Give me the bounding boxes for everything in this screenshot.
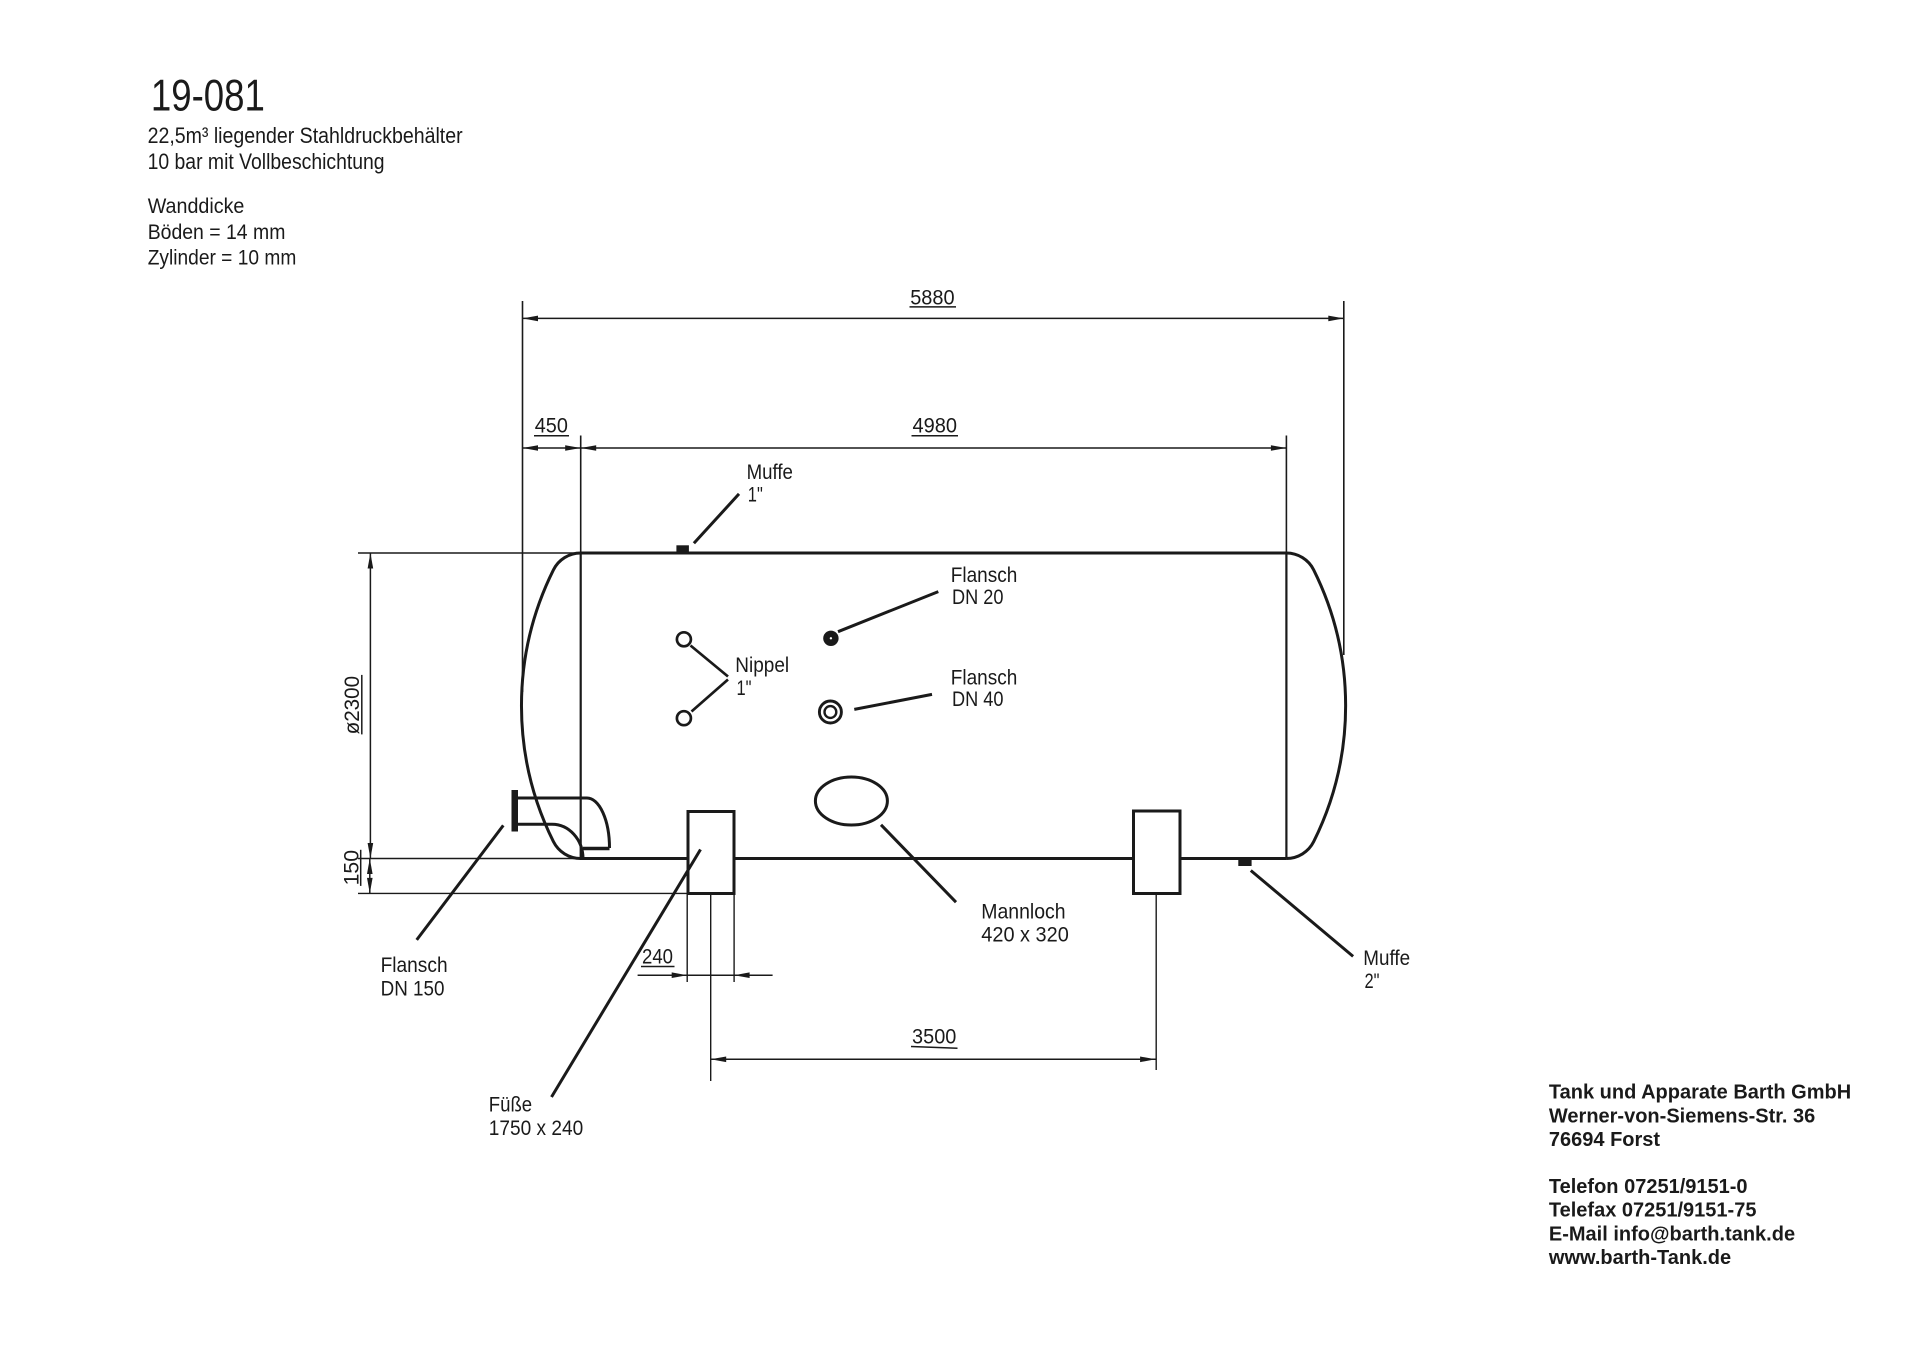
- ground line (150): [358, 892, 689, 894]
- extension line left weld (450/4980): [580, 436, 582, 554]
- leader Flansch DN150: [417, 825, 504, 940]
- right weld seam: [1285, 553, 1287, 859]
- svg-text:Flansch: Flansch: [951, 563, 1018, 587]
- svg-text:4980: 4980: [913, 414, 958, 438]
- svg-text:Muffe: Muffe: [747, 460, 793, 484]
- leader Muffe 1": [694, 494, 739, 543]
- dimension 240 line: [638, 974, 773, 976]
- centerline left foot (3500): [710, 894, 712, 1081]
- label Nippel 1": [735, 653, 789, 700]
- flange DN20 mark: [823, 631, 838, 646]
- svg-text:Wanddicke: Wanddicke: [148, 194, 245, 218]
- tank shell top line: [580, 552, 1286, 555]
- svg-text:www.barth-Tank.de: www.barth-Tank.de: [1548, 1247, 1731, 1269]
- svg-text:Werner-von-Siemens-Str. 36: Werner-von-Siemens-Str. 36: [1549, 1105, 1815, 1127]
- flange DN150 nozzle with elbow: [512, 790, 610, 859]
- svg-text:DN 40: DN 40: [952, 687, 1004, 711]
- label Mannloch 420 x 320: [981, 899, 1069, 946]
- svg-text:450: 450: [535, 414, 568, 438]
- extension line right overall (5880): [1343, 301, 1345, 655]
- svg-text:5880: 5880: [910, 286, 954, 310]
- svg-text:240: 240: [642, 945, 673, 969]
- svg-text:1": 1": [737, 676, 752, 700]
- svg-text:10 bar mit Vollbeschichtung: 10 bar mit Vollbeschichtung: [148, 149, 385, 174]
- nipple upper circle: [677, 632, 691, 646]
- svg-text:420 x 320: 420 x 320: [981, 922, 1069, 946]
- svg-text:Mannloch: Mannloch: [981, 899, 1065, 923]
- nipple lower circle: [677, 711, 691, 725]
- dimension 5880 line: [523, 317, 1344, 319]
- svg-text:Nippel: Nippel: [735, 653, 789, 677]
- socket Muffe 1" mark: [676, 545, 689, 553]
- leader Flansch DN40: [854, 694, 932, 709]
- dimension 4980 line: [581, 447, 1287, 449]
- centerline right foot (3500): [1155, 894, 1157, 1070]
- svg-text:Flansch: Flansch: [951, 666, 1018, 690]
- extension line left overall (5880): [522, 301, 524, 692]
- flange DN40 mark: [819, 701, 841, 723]
- svg-text:1750 x 240: 1750 x 240: [489, 1116, 583, 1140]
- svg-text:Muffe: Muffe: [1363, 946, 1410, 970]
- right dished head: [1286, 553, 1345, 859]
- label Füße 1750 x 240: [489, 1093, 583, 1140]
- svg-text:ø2300: ø2300: [340, 676, 364, 735]
- label Muffe 1": [747, 460, 793, 507]
- extension line right weld (4980): [1285, 436, 1287, 554]
- leader Muffe 2": [1251, 871, 1353, 957]
- manhole ellipse: [815, 777, 887, 825]
- svg-text:2": 2": [1365, 969, 1380, 993]
- extension line top tangent (ø2300): [358, 552, 580, 554]
- label Flansch DN 20: [951, 563, 1018, 609]
- label Flansch DN 40: [951, 666, 1018, 712]
- svg-text:76694 Forst: 76694 Forst: [1549, 1129, 1661, 1151]
- extension line bottom tangent (ø2300/150): [358, 858, 581, 860]
- dimension ø2300 line: [369, 553, 371, 859]
- right support foot: [1134, 811, 1181, 894]
- svg-text:DN 20: DN 20: [952, 585, 1004, 609]
- svg-text:1": 1": [748, 483, 763, 507]
- svg-text:E-Mail info@barth.tank.de: E-Mail info@barth.tank.de: [1549, 1223, 1795, 1245]
- svg-text:19-081: 19-081: [151, 71, 265, 120]
- svg-text:Füße: Füße: [489, 1093, 532, 1117]
- svg-text:Flansch: Flansch: [381, 953, 448, 977]
- company address block: [1548, 1082, 1851, 1269]
- left dished head: [521, 553, 580, 859]
- dimension 150 line: [369, 859, 371, 894]
- dimension 450 line: [523, 447, 581, 449]
- leader nipple upper: [691, 646, 729, 677]
- leader nipple lower: [692, 680, 729, 712]
- svg-text:150: 150: [339, 850, 363, 885]
- extension lines foot edges (240): [686, 894, 688, 982]
- label Muffe 2": [1363, 946, 1410, 993]
- svg-text:Telefax 07251/9151-75: Telefax 07251/9151-75: [1549, 1200, 1757, 1222]
- svg-text:DN 150: DN 150: [381, 977, 445, 1001]
- wall thickness note: [148, 194, 297, 269]
- left support foot: [688, 812, 734, 894]
- svg-text:3500: 3500: [912, 1025, 956, 1049]
- leader Füße: [552, 850, 701, 1098]
- socket Muffe 2" mark: [1238, 859, 1251, 866]
- tank shell bottom line: [580, 857, 1286, 860]
- leader Mannloch: [881, 825, 956, 902]
- leader Flansch DN20: [838, 592, 938, 632]
- left weld seam: [580, 553, 582, 859]
- dimension 3500 line: [711, 1058, 1156, 1060]
- svg-text:Tank und Apparate Barth GmbH: Tank und Apparate Barth GmbH: [1549, 1082, 1851, 1104]
- svg-text:Telefon 07251/9151-0: Telefon 07251/9151-0: [1549, 1176, 1748, 1198]
- label Flansch DN 150: [381, 953, 448, 1001]
- svg-text:Zylinder = 10 mm: Zylinder = 10 mm: [148, 245, 297, 269]
- svg-text:22,5m³ liegender Stahldruckbeh: 22,5m³ liegender Stahldruckbehälter: [148, 123, 463, 148]
- svg-text:Böden = 14 mm: Böden = 14 mm: [148, 220, 286, 244]
